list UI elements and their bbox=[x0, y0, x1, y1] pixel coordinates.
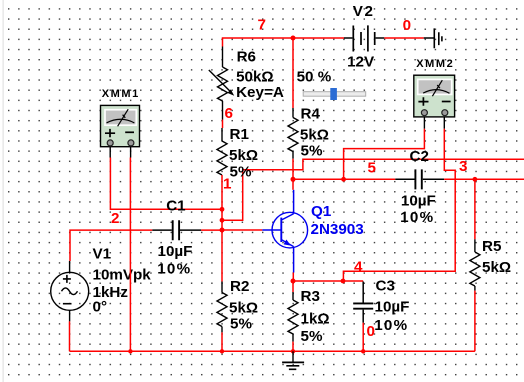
node 0 label bottom bbox=[367, 323, 375, 340]
svg-text:R2: R2 bbox=[230, 278, 249, 295]
R6 wiper arrow bbox=[209, 70, 234, 96]
svg-text:6: 6 bbox=[225, 105, 233, 122]
C3 value label 10µF bbox=[375, 299, 410, 316]
wire node 7 top rail bbox=[223, 38, 345, 47]
svg-text:V2: V2 bbox=[353, 3, 375, 20]
svg-text:50 %: 50 % bbox=[297, 68, 332, 85]
XMM1 label bbox=[102, 88, 140, 100]
svg-text:R4: R4 bbox=[301, 106, 321, 123]
wire base bbox=[222, 229, 262, 231]
junction node 1 base bbox=[220, 228, 225, 233]
node 0 label top bbox=[403, 17, 411, 34]
svg-text:5: 5 bbox=[368, 160, 377, 177]
svg-text:5kΩ: 5kΩ bbox=[229, 300, 258, 317]
R6 slider track bbox=[303, 92, 366, 97]
svg-text:2N3903: 2N3903 bbox=[311, 221, 364, 238]
R6 percent label 50 % bbox=[297, 68, 332, 85]
R6 label bbox=[237, 49, 256, 66]
multimeter XMM2 bbox=[414, 75, 455, 129]
node 3 label bbox=[459, 158, 467, 175]
capacitor C1 bbox=[152, 220, 201, 240]
svg-text:C1: C1 bbox=[166, 198, 186, 215]
C2 label bbox=[410, 148, 429, 165]
junction R5 top bbox=[473, 177, 478, 182]
wire C3 bottom bbox=[362, 323, 364, 352]
junction rail ground bbox=[291, 349, 295, 353]
svg-text:7: 7 bbox=[258, 16, 266, 33]
potentiometer R6 bbox=[218, 47, 228, 120]
wire node 6 bbox=[222, 120, 224, 129]
node 2 label bbox=[111, 210, 119, 227]
junction node 1 middle bbox=[220, 218, 225, 223]
capacitor C2 bbox=[395, 169, 444, 189]
wire emitter node bbox=[292, 273, 294, 282]
svg-text:Key=A: Key=A bbox=[236, 84, 284, 101]
junction rail C3 bbox=[361, 349, 365, 353]
svg-text:10µF: 10µF bbox=[401, 193, 436, 210]
R5 value label 5kΩ bbox=[482, 259, 511, 276]
svg-text:5kΩ: 5kΩ bbox=[482, 259, 511, 276]
wire R5 top bbox=[474, 179, 476, 239]
svg-text:50kΩ: 50kΩ bbox=[236, 69, 274, 86]
wire XMM2 minus to node 4 bbox=[343, 129, 455, 281]
R5 label bbox=[482, 238, 502, 255]
wire node to right edge step bbox=[222, 159, 524, 220]
C1 label bbox=[166, 198, 186, 215]
wire R4 top bbox=[292, 38, 294, 108]
wire node 0 battery to ground bbox=[384, 37, 424, 39]
junction node 1 upper bbox=[220, 207, 225, 212]
junction emitter bbox=[291, 279, 296, 284]
battery V2 bbox=[344, 25, 384, 51]
V1 label bbox=[93, 246, 112, 263]
R1 value label 5kΩ bbox=[229, 147, 258, 164]
wire C1 left to V1 bbox=[70, 230, 152, 261]
svg-text:12V: 12V bbox=[347, 54, 375, 71]
ground bottom bbox=[282, 351, 304, 369]
svg-text:R5: R5 bbox=[482, 238, 502, 255]
source V1 bbox=[51, 261, 89, 321]
transistor Q1 bbox=[262, 190, 307, 273]
resistor R4 bbox=[288, 108, 298, 159]
R2 value label 5kΩ bbox=[229, 300, 258, 317]
C3 label bbox=[376, 278, 395, 295]
svg-text:C3: C3 bbox=[376, 278, 395, 295]
svg-text:10mVpk: 10mVpk bbox=[93, 266, 152, 283]
svg-text:5%: 5% bbox=[230, 316, 252, 333]
V1 value label 10mVpk bbox=[93, 266, 152, 283]
svg-text:5kΩ: 5kΩ bbox=[300, 126, 329, 143]
wire V1 bottom bbox=[69, 321, 71, 351]
svg-text:0: 0 bbox=[403, 17, 411, 34]
svg-text:XMM2: XMM2 bbox=[416, 58, 454, 70]
junction node 7 bbox=[291, 36, 296, 41]
node 1 label bbox=[223, 176, 232, 193]
R6 key label bbox=[236, 84, 284, 101]
wire C1 right bbox=[201, 229, 222, 231]
Q1 label bbox=[311, 203, 332, 220]
junction rail XMM1 bbox=[128, 349, 132, 353]
R3 label bbox=[301, 288, 320, 305]
wire node 1 vertical column bbox=[221, 175, 223, 282]
wire R5 bottom bbox=[474, 291, 476, 352]
node 6 label bbox=[225, 105, 233, 122]
svg-text:C2: C2 bbox=[410, 148, 429, 165]
C1 value label 10µF bbox=[158, 243, 193, 260]
node 5 label bbox=[368, 160, 377, 177]
svg-text:10%: 10% bbox=[400, 209, 434, 226]
C2 value label 10µF bbox=[401, 193, 436, 210]
svg-text:10µF: 10µF bbox=[375, 299, 410, 316]
junction node 4 bbox=[341, 279, 346, 284]
svg-text:5%: 5% bbox=[301, 328, 323, 345]
svg-text:0°: 0° bbox=[93, 299, 108, 316]
svg-text:2: 2 bbox=[111, 210, 119, 227]
V1 phase label 0° bbox=[93, 299, 108, 316]
svg-text:10%: 10% bbox=[157, 261, 191, 278]
wire ground rail bbox=[70, 350, 475, 352]
junction XMM2 plus bbox=[341, 177, 346, 182]
svg-text:5%: 5% bbox=[301, 143, 323, 160]
wire R2 bottom bbox=[221, 332, 223, 351]
svg-text:R3: R3 bbox=[301, 288, 320, 305]
svg-text:10%: 10% bbox=[374, 317, 408, 334]
R3 tolerance label 5% bbox=[301, 328, 323, 345]
svg-text:V1: V1 bbox=[93, 246, 112, 263]
XMM2 label bbox=[416, 58, 454, 70]
resistor R1 bbox=[217, 128, 227, 175]
ground top right bbox=[424, 28, 442, 48]
wire XMM1 plus to node bbox=[110, 158, 222, 210]
node 7 label bbox=[258, 16, 266, 33]
R4 tolerance label 5% bbox=[301, 143, 323, 160]
resistor R3 bbox=[288, 292, 298, 342]
capacitor C3 bbox=[353, 282, 373, 323]
resistor R2 bbox=[217, 282, 227, 333]
R3 value label 1kΩ bbox=[301, 311, 330, 328]
svg-text:XMM1: XMM1 bbox=[102, 88, 140, 100]
R6 slider handle bbox=[330, 88, 337, 100]
wire node 5 collector line bbox=[293, 178, 395, 180]
R1 tolerance label 5% bbox=[230, 163, 252, 180]
C1 tolerance label 10% bbox=[157, 261, 191, 278]
V2 label bbox=[353, 3, 375, 20]
wire emitter horizontal bbox=[293, 280, 363, 282]
C2 tolerance label 10% bbox=[400, 209, 434, 226]
resistor R5 bbox=[470, 239, 480, 290]
R2 label bbox=[230, 278, 249, 295]
svg-text:R6: R6 bbox=[237, 49, 256, 66]
R2 tolerance label 5% bbox=[230, 316, 252, 333]
svg-text:Q1: Q1 bbox=[311, 203, 332, 220]
C3 tolerance label 10% bbox=[374, 317, 408, 334]
Q1 part label 2N3903 bbox=[311, 221, 364, 238]
wire R4 bottom to collector bbox=[292, 159, 294, 190]
R6 value label 50kΩ bbox=[236, 69, 274, 86]
junction rail R2 bbox=[220, 349, 224, 353]
node 4 label bbox=[354, 259, 363, 276]
V2 value label 12V bbox=[347, 54, 375, 71]
svg-text:0: 0 bbox=[367, 323, 375, 340]
svg-text:5%: 5% bbox=[230, 163, 252, 180]
wire XMM1 minus to ground rail bbox=[129, 158, 131, 352]
wire XMM2 plus to node 5 bbox=[344, 129, 425, 180]
svg-text:R1: R1 bbox=[230, 126, 250, 143]
svg-text:1kΩ: 1kΩ bbox=[301, 311, 330, 328]
wire C2 right to edge bbox=[444, 178, 524, 180]
V1 frequency label 1kHz bbox=[93, 284, 129, 301]
svg-text:10µF: 10µF bbox=[158, 243, 193, 260]
multimeter XMM1 bbox=[101, 105, 140, 157]
junction collector bbox=[291, 177, 296, 182]
svg-text:3: 3 bbox=[459, 158, 467, 175]
R1 label bbox=[230, 126, 250, 143]
R4 label bbox=[301, 106, 321, 123]
svg-text:5kΩ: 5kΩ bbox=[229, 147, 258, 164]
wire R3 top bbox=[292, 281, 294, 292]
wire R3 bottom bbox=[292, 342, 294, 352]
svg-text:4: 4 bbox=[354, 259, 363, 276]
R4 value label 5kΩ bbox=[300, 126, 329, 143]
